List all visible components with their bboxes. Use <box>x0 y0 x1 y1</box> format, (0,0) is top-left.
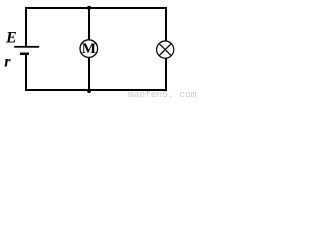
svg-text:r: r <box>4 54 11 71</box>
svg-text:E: E <box>5 29 17 46</box>
svg-text:M: M <box>82 41 96 57</box>
